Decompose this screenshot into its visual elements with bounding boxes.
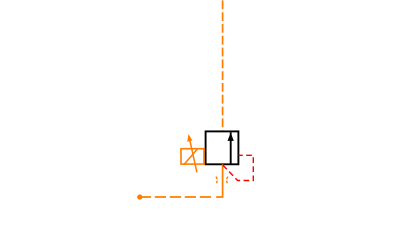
wire: orange dashed line to tank node [140,196,213,198]
flow path line inside valve [230,132,232,163]
crossing hop arc (left of drain line) [216,177,217,184]
crossing hop arc (right of drain line) [227,177,228,184]
wire: orange dashed supply line from top [222,0,224,131]
spring diagonal stroke [184,148,198,164]
flow direction arrowhead (up) [228,133,234,141]
valve U1 envelope (body square) [206,131,239,164]
spring / pilot control box on left [181,149,204,164]
adjustment arrowhead [187,134,192,142]
pilot line: red dashed feedback loop [223,155,254,180]
wire: solid orange drain line below valve [216,164,222,197]
adjustment arrow shaft [189,138,197,173]
node: junction dot [137,194,142,199]
